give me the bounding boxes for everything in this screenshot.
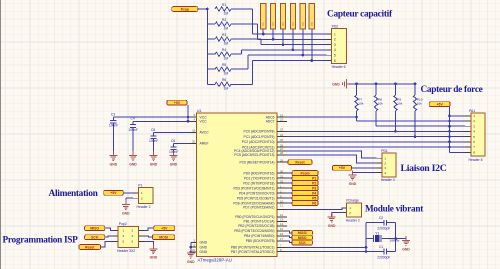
svg-text:GND: GND: [150, 256, 158, 260]
svg-text:Pcap: Pcap: [181, 7, 189, 11]
svg-text:PB7 (PCINT7/XTAL2/TOSC2): PB7 (PCINT7/XTAL2/TOSC2): [231, 250, 275, 254]
svg-text:GND: GND: [150, 163, 158, 167]
svg-text:SCK: SCK: [91, 235, 99, 239]
svg-text:3: 3: [334, 43, 336, 47]
svg-text:17: 17: [280, 237, 284, 241]
svg-text:5: 5: [334, 54, 336, 58]
svg-text:P1: P1: [312, 176, 316, 180]
svg-text:P5: P5: [312, 196, 316, 200]
svg-text:100nF: 100nF: [129, 128, 138, 132]
svg-text:Header 6: Header 6: [332, 65, 346, 69]
svg-text:GND: GND: [187, 260, 195, 264]
svg-text:22000pF: 22000pF: [377, 256, 390, 260]
svg-text:15: 15: [280, 227, 284, 231]
svg-text:P2: P2: [271, 22, 275, 26]
svg-text:20: 20: [192, 140, 196, 144]
svg-text:C3: C3: [111, 112, 115, 116]
svg-text:Header 2: Header 2: [346, 219, 360, 223]
svg-text:1M: 1M: [224, 57, 229, 61]
svg-text:ADC7: ADC7: [266, 120, 275, 124]
svg-text:P4: P4: [312, 191, 316, 195]
svg-text:GND: GND: [349, 182, 357, 186]
svg-text:C5: C5: [151, 128, 155, 132]
svg-text:10k: 10k: [417, 102, 422, 106]
svg-text:P1: P1: [261, 22, 265, 26]
svg-text:Pop2: Pop2: [119, 222, 127, 226]
svg-text:R5: R5: [222, 63, 226, 67]
svg-text:P2: P2: [312, 181, 316, 185]
svg-text:2: 2: [334, 38, 336, 42]
svg-text:24: 24: [280, 133, 284, 137]
svg-text:11: 11: [280, 204, 283, 208]
svg-text:GND: GND: [328, 224, 336, 228]
svg-text:R6: R6: [222, 78, 226, 82]
svg-text:PD2 (INT0/PCINT18): PD2 (INT0/PCINT18): [243, 181, 274, 185]
svg-text:R3: R3: [222, 33, 226, 37]
svg-text:+5V: +5V: [174, 101, 181, 105]
svg-text:C2: C2: [379, 216, 383, 220]
svg-text:+5V: +5V: [161, 226, 168, 230]
svg-text:Capteur de force: Capteur de force: [421, 85, 483, 95]
svg-text:Alimentation: Alimentation: [49, 189, 99, 199]
svg-text:13: 13: [280, 218, 284, 222]
svg-text:10k: 10k: [358, 102, 363, 106]
svg-text:C1: C1: [379, 245, 383, 249]
svg-text:P3: P3: [281, 22, 285, 26]
svg-text:C6: C6: [171, 139, 175, 143]
svg-text:PB4 (PCINT4/MISO): PB4 (PCINT4/MISO): [244, 234, 274, 238]
svg-text:16MHz: 16MHz: [390, 239, 400, 243]
svg-text:GND: GND: [129, 163, 137, 167]
svg-text:P3: P3: [312, 186, 316, 190]
svg-text:4: 4: [334, 48, 336, 52]
svg-text:21: 21: [192, 248, 196, 252]
svg-text:PB3 (PCINT3/OC2A/MOSI): PB3 (PCINT3/OC2A/MOSI): [234, 229, 274, 233]
svg-text:ATmega328P-AU: ATmega328P-AU: [198, 257, 232, 262]
svg-text:Capteur capacitif: Capteur capacitif: [327, 10, 393, 20]
svg-text:PC6 (RESET/PCINT14): PC6 (RESET/PCINT14): [240, 160, 275, 164]
svg-text:PD5 (PCINT21/OC0B/T1): PD5 (PCINT21/OC0B/T1): [237, 196, 275, 200]
svg-text:Header 4: Header 4: [381, 178, 395, 182]
svg-text:GND: GND: [122, 212, 130, 216]
svg-text:P4: P4: [291, 22, 295, 26]
svg-text:MISO: MISO: [90, 226, 99, 230]
svg-text:1M: 1M: [224, 87, 229, 91]
svg-text:SCK: SCK: [299, 241, 307, 245]
svg-text:R2: R2: [222, 18, 226, 22]
svg-text:Module vibrant: Module vibrant: [365, 203, 424, 213]
svg-text:PC5 (ADC5/SCL/PCINT13): PC5 (ADC5/SCL/PCINT13): [234, 153, 274, 157]
svg-text:32: 32: [280, 179, 284, 183]
svg-text:1M: 1M: [224, 11, 229, 15]
svg-text:GND: GND: [200, 241, 208, 245]
svg-text:PA1: PA1: [469, 109, 475, 113]
svg-text:+5V: +5V: [339, 166, 346, 170]
svg-text:R1: R1: [222, 3, 226, 7]
svg-text:GND: GND: [110, 163, 118, 167]
svg-text:C4: C4: [131, 117, 135, 121]
svg-text:Y1: Y1: [375, 231, 379, 235]
svg-text:PD0 (RXD/PCINT16): PD0 (RXD/PCINT16): [244, 171, 275, 175]
svg-text:PD7 (PCINT23/AIN1): PD7 (PCINT23/AIN1): [243, 206, 274, 210]
svg-text:PC0 (ADC0/PCINT8): PC0 (ADC0/PCINT8): [244, 130, 275, 134]
svg-text:18: 18: [192, 129, 196, 133]
svg-text:+5V: +5V: [437, 102, 444, 106]
svg-text:16: 16: [280, 232, 284, 236]
svg-text:31: 31: [280, 174, 284, 178]
svg-text:10k: 10k: [378, 102, 383, 106]
svg-text:PB2 (PCINT2/SS/OC1B): PB2 (PCINT2/SS/OC1B): [238, 224, 274, 228]
svg-text:P6: P6: [310, 22, 314, 26]
svg-text:P5: P5: [301, 22, 305, 26]
svg-text:Header 3X2: Header 3X2: [117, 249, 135, 253]
svg-text:Header 2: Header 2: [137, 205, 151, 209]
svg-text:PB5 (SCK/PCINT5): PB5 (SCK/PCINT5): [246, 239, 275, 243]
svg-text:MOSI: MOSI: [298, 231, 307, 235]
svg-text:GND: GND: [332, 82, 340, 86]
svg-text:PC1 (ADC1/PCINT9): PC1 (ADC1/PCINT9): [244, 135, 275, 139]
svg-text:6: 6: [334, 59, 336, 63]
svg-text:MISO: MISO: [298, 236, 307, 240]
svg-text:AVCC: AVCC: [200, 131, 210, 135]
svg-text:12: 12: [280, 213, 284, 217]
svg-text:PB0 (PCINT0/CLKO/ICP1): PB0 (PCINT0/CLKO/ICP1): [235, 215, 274, 219]
svg-text:1M: 1M: [224, 27, 229, 31]
svg-text:10k: 10k: [397, 102, 402, 106]
svg-text:P1: P1: [138, 183, 142, 187]
svg-text:22000pF: 22000pF: [377, 227, 390, 231]
svg-text:GND: GND: [170, 163, 178, 167]
svg-text:PB1 (PCINT1/OC1A): PB1 (PCINT1/OC1A): [244, 220, 275, 224]
svg-text:Reset: Reset: [295, 160, 305, 164]
svg-text:PC2 (ADC2/PCINT10): PC2 (ADC2/PCINT10): [242, 140, 275, 144]
svg-text:GND: GND: [200, 245, 208, 249]
svg-text:PD4 (PCINT20/XCK/T0): PD4 (PCINT20/XCK/T0): [239, 191, 275, 195]
svg-text:Header 8: Header 8: [469, 158, 483, 162]
svg-text:Reset: Reset: [85, 245, 95, 249]
svg-text:23: 23: [280, 128, 284, 132]
svg-text:22: 22: [280, 118, 284, 122]
svg-text:VCC: VCC: [200, 120, 208, 124]
svg-text:100nF: 100nF: [169, 150, 178, 154]
svg-text:MOSI: MOSI: [159, 235, 168, 239]
svg-text:30: 30: [280, 169, 284, 173]
svg-text:29: 29: [280, 158, 284, 162]
svg-text:28: 28: [280, 151, 284, 155]
svg-text:P6: P6: [312, 201, 316, 205]
svg-text:1M: 1M: [224, 42, 229, 46]
svg-text:AREF: AREF: [200, 142, 209, 146]
svg-text:PD1: PD1: [381, 149, 388, 153]
svg-text:Liaison I2C: Liaison I2C: [401, 163, 447, 174]
svg-text:PD2: PD2: [332, 25, 339, 29]
svg-text:+5V: +5V: [110, 191, 117, 195]
svg-text:1M: 1M: [224, 72, 229, 76]
svg-text:Pcom: Pcom: [300, 171, 309, 175]
svg-text:100nF: 100nF: [109, 124, 118, 128]
svg-text:PD1 (TXD/PCINT17): PD1 (TXD/PCINT17): [244, 176, 275, 180]
svg-text:GND: GND: [200, 250, 208, 254]
svg-text:25: 25: [280, 138, 284, 142]
svg-text:14: 14: [280, 222, 284, 226]
svg-text:100nF: 100nF: [149, 139, 158, 143]
svg-text:GND: GND: [402, 247, 410, 251]
svg-text:R4: R4: [222, 48, 226, 52]
svg-text:1: 1: [334, 32, 336, 36]
svg-text:Pcharge: Pcharge: [346, 199, 359, 203]
svg-text:U1: U1: [197, 109, 201, 113]
svg-text:Programmation ISP: Programmation ISP: [3, 235, 79, 245]
svg-text:PD3 (PCINT19/OC2B/INT1): PD3 (PCINT19/OC2B/INT1): [233, 186, 274, 190]
